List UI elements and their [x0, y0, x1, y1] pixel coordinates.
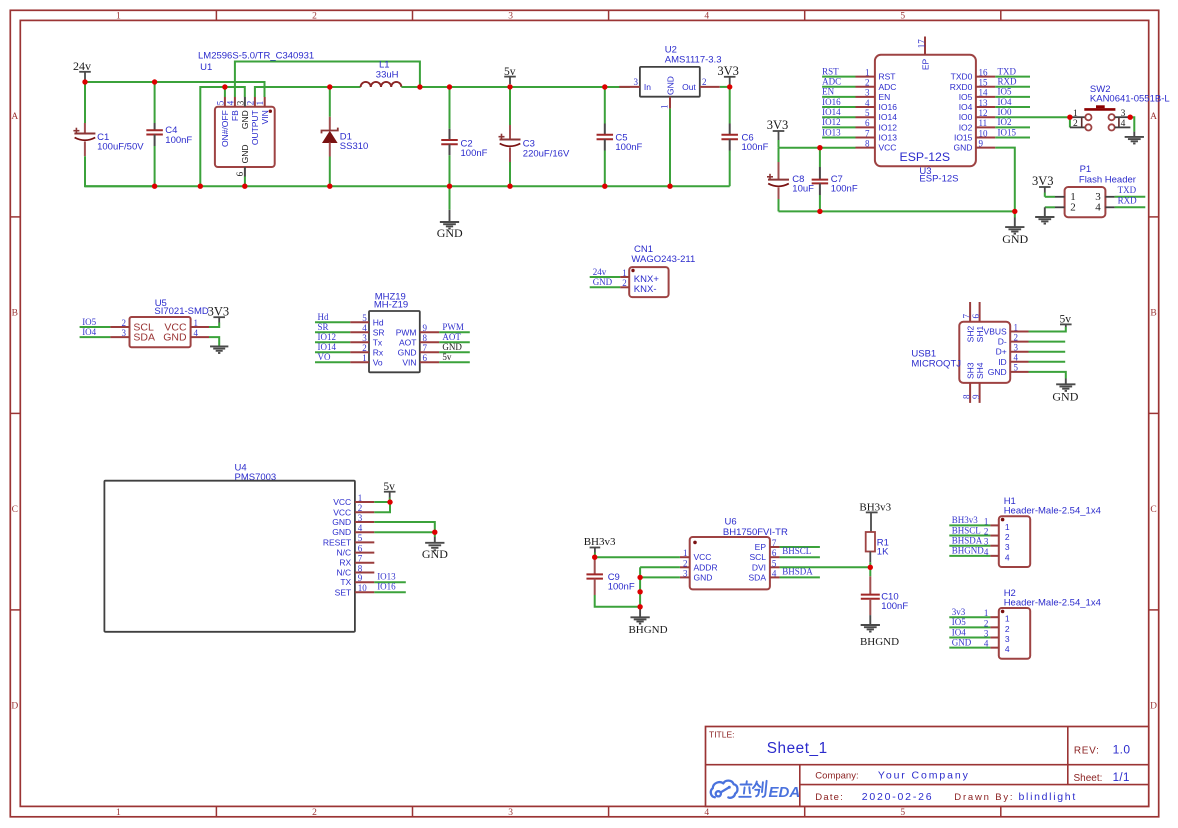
- wire / net label IO5: [995, 96, 1030, 98]
- svg-text:FB: FB: [230, 110, 240, 121]
- U6 pin 3 GND: [680, 576, 690, 578]
- U6 pin 1 VCC: [680, 556, 690, 558]
- svg-text:WAGO243-211: WAGO243-211: [631, 254, 695, 265]
- svg-text:KNX-: KNX-: [634, 284, 657, 295]
- svg-text:IO4: IO4: [952, 627, 966, 637]
- wire U4 GND4: [374, 531, 435, 533]
- svg-text:9: 9: [423, 323, 428, 333]
- svg-text:A: A: [1150, 112, 1157, 122]
- svg-text:RESET: RESET: [323, 537, 351, 547]
- wire 5v tick: [389, 498, 391, 503]
- svg-text:1: 1: [1005, 614, 1010, 624]
- junction BH3v3: [592, 555, 597, 560]
- USB1 pin 5 GND: [1010, 371, 1028, 373]
- capacitor C7: [819, 148, 821, 167]
- wire IO0 to SW2: [995, 116, 1070, 118]
- junction C3 bottom: [507, 184, 512, 189]
- svg-text:SDA: SDA: [133, 332, 155, 344]
- svg-text:2: 2: [122, 318, 127, 328]
- U4 pin 8 N/C: [355, 572, 374, 574]
- svg-text:15: 15: [979, 78, 989, 88]
- svg-text:AOT: AOT: [399, 337, 416, 347]
- svg-text:PWM: PWM: [442, 322, 464, 332]
- svg-text:IO4: IO4: [82, 327, 96, 337]
- svg-text:9: 9: [979, 138, 984, 148]
- wire D1 top: [329, 87, 331, 117]
- ground (SW2): [1125, 136, 1144, 138]
- svg-text:GND: GND: [437, 226, 463, 240]
- svg-text:SH2: SH2: [965, 326, 975, 343]
- wire BHSDA: [780, 576, 820, 578]
- capacitor C3: [509, 87, 511, 125]
- svg-text:5: 5: [1014, 363, 1019, 373]
- svg-text:3v3: 3v3: [952, 607, 966, 617]
- U1 pin 6 GND: [244, 167, 246, 177]
- svg-text:SH3: SH3: [965, 362, 975, 379]
- wire U4 GND3: [374, 522, 435, 532]
- svg-text:9: 9: [358, 573, 363, 583]
- junction 24v rail: [82, 79, 87, 84]
- svg-text:GND: GND: [163, 332, 187, 344]
- svg-text:TITLE:: TITLE:: [709, 729, 735, 739]
- svg-text:1: 1: [358, 493, 363, 503]
- junction 5v / C3: [507, 84, 512, 89]
- H2 pin 4: [949, 647, 990, 649]
- svg-text:IO12: IO12: [879, 122, 898, 132]
- svg-text:IO16: IO16: [377, 581, 396, 591]
- svg-text:IO5: IO5: [959, 92, 973, 102]
- wire U3 GND pin9: [995, 148, 1015, 212]
- wire pin5 drop: [224, 87, 226, 97]
- svg-text:IO13: IO13: [822, 127, 841, 137]
- svg-text:4: 4: [1005, 644, 1010, 654]
- svg-text:RST: RST: [822, 66, 839, 76]
- svg-text:SET: SET: [335, 587, 352, 597]
- svg-text:5: 5: [772, 558, 777, 568]
- junction U2 gnd: [667, 184, 672, 189]
- wire C4 branch: [154, 82, 156, 123]
- svg-text:GND: GND: [954, 143, 973, 153]
- wire 24v rail: [85, 82, 265, 97]
- U6 pin 4 SDA: [770, 576, 780, 578]
- wire output rail from pin2: [255, 87, 361, 97]
- svg-text:ID: ID: [998, 357, 1007, 367]
- svg-text:Date:: Date:: [815, 792, 844, 803]
- svg-text:4: 4: [194, 328, 199, 338]
- svg-text:14: 14: [979, 88, 989, 98]
- svg-text:REV:: REV:: [1074, 745, 1100, 756]
- U1 pin 1 VIN: [264, 97, 266, 107]
- junction gnd riser: [198, 184, 203, 189]
- ground symbol GND (USB): [1056, 383, 1075, 385]
- wire SW2 to ground: [1130, 117, 1134, 131]
- svg-text:EDA: EDA: [769, 784, 801, 801]
- svg-text:Header-Male-2.54_1x4: Header-Male-2.54_1x4: [1004, 506, 1101, 517]
- svg-text:IO15: IO15: [954, 133, 973, 143]
- wire USB D+: [1029, 351, 1066, 353]
- svg-text:IO4: IO4: [959, 102, 973, 112]
- CN1 pin 2 KNX-: [590, 286, 621, 288]
- svg-text:100uF/50V: 100uF/50V: [97, 142, 144, 153]
- svg-text:7: 7: [358, 554, 363, 564]
- svg-text:4: 4: [704, 808, 709, 818]
- SW2 contacts left: [1085, 114, 1091, 120]
- svg-text:IO14: IO14: [318, 342, 337, 352]
- wire / net label IO4: [995, 106, 1030, 108]
- svg-text:3V3: 3V3: [1032, 174, 1054, 188]
- svg-text:IO2: IO2: [959, 122, 973, 132]
- U4 pin 10 SET: [355, 591, 374, 593]
- svg-text:IO4: IO4: [998, 97, 1012, 107]
- U3 pin 17 EP: [924, 37, 926, 55]
- svg-text:1: 1: [255, 101, 265, 106]
- svg-text:SR: SR: [373, 327, 385, 337]
- wire USB GND: [1029, 372, 1066, 379]
- junction pin5 ON/OFF: [222, 84, 227, 89]
- svg-text:VBUS: VBUS: [984, 327, 1007, 337]
- svg-text:IO0: IO0: [959, 112, 973, 122]
- svg-text:1: 1: [1005, 522, 1010, 532]
- SW2 pin 1: [1070, 116, 1085, 118]
- svg-text:C: C: [1150, 505, 1156, 515]
- svg-text:2: 2: [245, 101, 255, 106]
- U3 pin 16 TXD0: [976, 76, 995, 78]
- U3 pin 15 RXD0: [976, 86, 995, 88]
- wire BHSCL: [780, 556, 820, 558]
- svg-text:10: 10: [358, 583, 368, 593]
- U1 pin 4 FB: [234, 97, 236, 107]
- svg-text:IO16: IO16: [879, 102, 898, 112]
- svg-text:4: 4: [984, 547, 989, 557]
- U3 pin 4 IO16: [856, 106, 875, 108]
- svg-text:Sheet:: Sheet:: [1074, 773, 1103, 784]
- svg-text:VCC: VCC: [333, 507, 351, 517]
- capacitor C1: [84, 123, 86, 134]
- svg-text:6: 6: [358, 543, 363, 553]
- svg-text:3: 3: [865, 88, 870, 98]
- wire C1 bottom to ground rail: [85, 156, 155, 186]
- svg-text:RXD0: RXD0: [950, 82, 973, 92]
- svg-text:5: 5: [865, 108, 870, 118]
- svg-text:2: 2: [984, 618, 989, 628]
- capacitor C5: [604, 87, 606, 124]
- svg-text:GND: GND: [1002, 232, 1028, 246]
- svg-text:IO0: IO0: [998, 107, 1012, 117]
- USB1 pin 7 SH2: [969, 302, 971, 322]
- ground (U5): [210, 345, 228, 347]
- svg-text:1: 1: [1073, 109, 1078, 119]
- junction gnd riser 2: [637, 589, 642, 594]
- svg-text:ESP-12S: ESP-12S: [919, 174, 958, 185]
- connector USB1 MICROQTJ: [959, 322, 1010, 383]
- svg-text:PWM: PWM: [396, 327, 417, 337]
- svg-text:GND: GND: [422, 547, 448, 561]
- U2 pin 3 In: [619, 86, 640, 88]
- svg-text:SS310: SS310: [340, 141, 369, 152]
- svg-text:3: 3: [122, 328, 127, 338]
- svg-text:GND: GND: [332, 527, 351, 537]
- wire ADDR/GND to gnd riser: [640, 566, 680, 568]
- U5 pin 4 GND: [191, 336, 209, 338]
- svg-text:GND: GND: [442, 342, 462, 352]
- svg-text:7: 7: [423, 343, 428, 353]
- LCEDA logo: [711, 781, 738, 798]
- U4 pin 9 TX: [355, 581, 374, 583]
- capacitor C8: [778, 148, 780, 162]
- svg-text:GND: GND: [952, 637, 972, 647]
- junction SW2 left: [1067, 115, 1072, 120]
- wire C9 bottom: [595, 595, 640, 607]
- USB1 pin 8 SH3: [969, 383, 971, 403]
- svg-text:3: 3: [235, 100, 245, 105]
- svg-text:Hd: Hd: [318, 312, 329, 322]
- svg-text:3: 3: [683, 568, 688, 578]
- svg-text:1: 1: [1014, 322, 1019, 332]
- svg-text:4: 4: [362, 323, 367, 333]
- wire USB ID: [1029, 361, 1066, 363]
- svg-text:IO5: IO5: [998, 87, 1012, 97]
- svg-text:Flash Header: Flash Header: [1079, 174, 1136, 185]
- svg-text:2: 2: [1005, 532, 1010, 542]
- svg-text:LM2596S-5.0/TR_C340931: LM2596S-5.0/TR_C340931: [198, 50, 314, 61]
- U5 pin 2 SCL: [80, 326, 111, 328]
- MHZ19 pin 7 GND: [420, 351, 439, 353]
- svg-text:3V3: 3V3: [767, 118, 789, 132]
- svg-text:Vo: Vo: [373, 357, 383, 367]
- MHZ19 pin 2 Rx: [315, 351, 350, 353]
- svg-text:1: 1: [116, 12, 121, 22]
- svg-text:4: 4: [772, 568, 777, 578]
- svg-text:VIN: VIN: [402, 357, 416, 367]
- svg-text:9: 9: [971, 394, 981, 399]
- svg-text:3: 3: [1005, 542, 1010, 552]
- U5 pin 1 VCC: [191, 326, 209, 328]
- module U3 ESP-12S: [875, 55, 976, 167]
- ground symbol BHGND (left): [639, 607, 641, 618]
- capacitor C9: [594, 558, 596, 574]
- svg-text:1: 1: [865, 67, 870, 77]
- svg-text:3: 3: [634, 77, 639, 87]
- svg-text:2: 2: [358, 503, 363, 513]
- U3 pin 12 IO0: [976, 116, 995, 118]
- U3 pin 8 VCC: [856, 147, 875, 149]
- capacitor C10: [869, 567, 871, 576]
- svg-text:IO5: IO5: [82, 317, 96, 327]
- svg-text:EN: EN: [879, 92, 891, 102]
- svg-text:SCL: SCL: [749, 552, 766, 562]
- svg-text:A: A: [11, 112, 18, 122]
- svg-text:100nF: 100nF: [461, 148, 488, 159]
- svg-text:2: 2: [1005, 624, 1010, 634]
- svg-text:2: 2: [683, 558, 688, 568]
- svg-text:5: 5: [215, 100, 225, 105]
- svg-text:EP: EP: [755, 542, 767, 552]
- wire U6 EP stub: [780, 546, 820, 548]
- ground (P1): [1044, 207, 1046, 217]
- MHZ19 pin 9 PWM: [420, 331, 439, 333]
- svg-text:AMS1117-3.3: AMS1117-3.3: [665, 55, 722, 66]
- svg-text:ESP-12S: ESP-12S: [900, 150, 951, 164]
- wire / net label ADC: [822, 86, 855, 88]
- svg-text:IO5: IO5: [952, 617, 966, 627]
- svg-text:24v: 24v: [593, 267, 607, 277]
- ground symbol BHGND (right): [869, 615, 871, 625]
- svg-text:1: 1: [984, 608, 989, 618]
- wire U4 VCC1: [374, 501, 390, 503]
- H2 pin 3: [949, 637, 990, 639]
- U3 pin 6 IO12: [856, 126, 875, 128]
- MHZ19 pin 3 Tx: [315, 341, 350, 343]
- svg-text:GND: GND: [593, 277, 613, 287]
- svg-text:Hd: Hd: [373, 317, 384, 327]
- svg-text:1/1: 1/1: [1113, 772, 1130, 784]
- P1 pin 1: [1045, 196, 1055, 198]
- svg-text:TXD: TXD: [998, 66, 1017, 76]
- svg-text:TX: TX: [340, 577, 351, 587]
- svg-text:D: D: [11, 702, 18, 712]
- svg-text:2: 2: [312, 12, 317, 22]
- svg-text:4: 4: [984, 639, 989, 649]
- H1 pin 3: [949, 545, 990, 547]
- junction R1/C10/DVI: [868, 565, 873, 570]
- svg-text:RX: RX: [339, 558, 351, 568]
- svg-text:TXD0: TXD0: [951, 72, 973, 82]
- svg-text:BHSDA: BHSDA: [952, 536, 983, 546]
- U4 pin 1 VCC: [355, 501, 374, 503]
- junction C4 top: [152, 79, 157, 84]
- U3 pin 10 IO15: [976, 137, 995, 139]
- U1 pin 3 GND: [244, 97, 246, 107]
- USB1 pin 1 VBUS: [1010, 331, 1028, 333]
- U6 pin 6 SCL: [770, 556, 780, 558]
- U3 pin 2 ADC: [856, 86, 875, 88]
- svg-text:GND: GND: [694, 572, 713, 582]
- svg-text:EN: EN: [822, 87, 834, 97]
- svg-text:3: 3: [358, 513, 363, 523]
- svg-text:4: 4: [1014, 353, 1019, 363]
- MHZ19 pin 5 Hd: [315, 321, 350, 323]
- svg-text:11: 11: [979, 118, 988, 128]
- svg-text:DVI: DVI: [752, 562, 766, 572]
- svg-text:BH3v3: BH3v3: [584, 536, 616, 548]
- SW2 pin 2: [1069, 117, 1071, 127]
- svg-text:4: 4: [1095, 202, 1101, 214]
- svg-text:RXD: RXD: [998, 77, 1018, 87]
- svg-text:VO: VO: [318, 352, 331, 362]
- svg-text:VCC: VCC: [879, 143, 897, 153]
- svg-text:SR: SR: [318, 322, 329, 332]
- svg-text:BHSCL: BHSCL: [782, 546, 811, 556]
- U3 pin 13 IO4: [976, 106, 995, 108]
- P1 pin 2: [1045, 206, 1055, 208]
- svg-text:2020-02-26: 2020-02-26: [862, 791, 934, 803]
- svg-text:3: 3: [362, 333, 367, 343]
- svg-text:8: 8: [865, 138, 870, 148]
- U4 pin 2 VCC: [355, 511, 374, 513]
- wire D1 bottom: [329, 157, 331, 187]
- svg-text:8: 8: [358, 563, 363, 573]
- svg-text:SDA: SDA: [749, 572, 767, 582]
- wire U4 VCC2: [374, 502, 390, 512]
- svg-text:B: B: [12, 309, 18, 319]
- junction FB: [417, 84, 422, 89]
- svg-text:33uH: 33uH: [376, 69, 399, 80]
- svg-text:IO15: IO15: [998, 127, 1017, 137]
- junction 5v: [387, 499, 392, 504]
- svg-text:IO2: IO2: [998, 117, 1012, 127]
- U3 pin 7 IO13: [856, 137, 875, 139]
- junction U4 gnd: [432, 530, 437, 535]
- svg-text:3: 3: [508, 808, 513, 818]
- svg-text:100nF: 100nF: [881, 601, 908, 612]
- wire pin6 to rail: [244, 177, 246, 187]
- svg-text:4: 4: [865, 98, 870, 108]
- svg-text:AOT: AOT: [442, 332, 461, 342]
- U4 pin 7 RX: [355, 562, 374, 564]
- title block: [706, 727, 1149, 807]
- U6 pin 7 EP: [770, 546, 780, 548]
- svg-text:2: 2: [622, 278, 627, 288]
- svg-text:In: In: [644, 82, 651, 92]
- svg-text:7: 7: [772, 538, 777, 548]
- svg-text:3: 3: [984, 537, 989, 547]
- U5 pin 3 SDA: [80, 336, 111, 338]
- USB1 pin 6 SH1: [979, 302, 981, 322]
- svg-text:BHGND: BHGND: [860, 636, 899, 648]
- svg-text:3: 3: [1005, 634, 1010, 644]
- svg-text:220uF/16V: 220uF/16V: [523, 148, 570, 159]
- svg-text:4: 4: [704, 12, 709, 22]
- junction C2 top: [447, 84, 452, 89]
- svg-text:Header-Male-2.54_1x4: Header-Male-2.54_1x4: [1004, 597, 1101, 608]
- SW2 pin 4: [1115, 126, 1131, 128]
- svg-text:8: 8: [423, 333, 428, 343]
- svg-text:VCC: VCC: [694, 552, 712, 562]
- junction D1 bottom: [327, 184, 332, 189]
- svg-text:U1: U1: [200, 62, 212, 73]
- svg-text:1: 1: [116, 808, 121, 818]
- svg-text:TXD: TXD: [1118, 185, 1137, 195]
- svg-text:IO12: IO12: [822, 117, 841, 127]
- svg-text:RXD: RXD: [1118, 195, 1138, 205]
- svg-text:GND: GND: [332, 517, 351, 527]
- svg-text:GND: GND: [240, 110, 250, 129]
- svg-text:SH4: SH4: [975, 362, 985, 379]
- CN1 pin 1 KNX+: [590, 276, 621, 278]
- svg-text:VIN: VIN: [260, 110, 270, 124]
- MHZ19 pin 1 Vo: [315, 361, 350, 363]
- svg-text:GND: GND: [1052, 389, 1078, 403]
- svg-text:D: D: [1150, 702, 1157, 712]
- svg-text:BHSCL: BHSCL: [952, 525, 981, 535]
- USB1 pin 3 D+: [1010, 351, 1028, 353]
- U2 pin 2 Out: [700, 86, 720, 88]
- svg-text:2: 2: [984, 526, 989, 536]
- svg-text:1: 1: [659, 105, 669, 110]
- wire gnd bus under C8/C7: [779, 210, 1015, 212]
- svg-text:IO12: IO12: [318, 332, 337, 342]
- junction C2 bottom / gnd: [447, 184, 452, 189]
- capacitor C4: [154, 123, 156, 130]
- junction C7 bottom: [817, 209, 822, 214]
- svg-text:IO14: IO14: [822, 107, 841, 117]
- wire / net label IO12: [822, 126, 855, 128]
- MHZ19 pin 4 SR: [315, 331, 350, 333]
- H2 pin 1: [949, 616, 990, 618]
- wire / net label RXD: [995, 86, 1030, 88]
- svg-text:1.0: 1.0: [1113, 743, 1131, 757]
- junction C4 bottom: [152, 184, 157, 189]
